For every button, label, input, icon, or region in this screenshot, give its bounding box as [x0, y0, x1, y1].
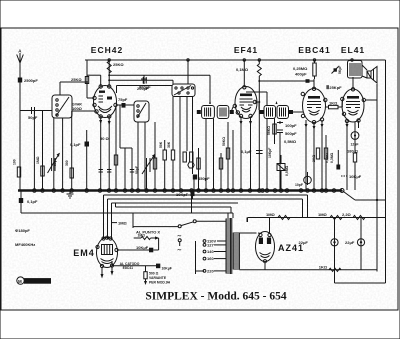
svg-text:50pF: 50pF — [53, 158, 57, 166]
svg-text:25KΩ: 25KΩ — [113, 62, 124, 67]
svg-text:0,5MΩ: 0,5MΩ — [284, 139, 297, 144]
svg-text:EL41: EL41 — [341, 45, 365, 55]
svg-text:MF460KHz: MF460KHz — [15, 242, 35, 247]
svg-text:30K: 30K — [167, 141, 171, 148]
svg-text:10KμF: 10KμF — [162, 266, 172, 270]
svg-text:1KΩ: 1KΩ — [329, 101, 338, 106]
svg-text:Φ180pF: Φ180pF — [15, 228, 30, 233]
svg-text:PER MOD.9H: PER MOD.9H — [149, 281, 171, 285]
svg-text:0,25MΩ: 0,25MΩ — [293, 66, 308, 71]
svg-text:400pF: 400pF — [295, 72, 307, 77]
svg-text:10KμF: 10KμF — [136, 245, 149, 250]
svg-text:EM 64-05: EM 64-05 — [26, 279, 46, 284]
svg-text:1MΩ: 1MΩ — [318, 212, 328, 217]
svg-text:0,1pF: 0,1pF — [70, 142, 81, 147]
svg-text:100pF: 100pF — [285, 123, 297, 128]
svg-text:50 Ω: 50 Ω — [100, 136, 110, 141]
svg-text:∼: ∼ — [177, 248, 182, 254]
svg-text:∼: ∼ — [177, 234, 182, 240]
svg-text:50pF: 50pF — [135, 166, 139, 174]
svg-text:EM4: EM4 — [73, 248, 95, 258]
svg-text:2KΩ: 2KΩ — [312, 155, 316, 162]
svg-text:1MΩ: 1MΩ — [266, 212, 276, 217]
svg-text:1MΩ: 1MΩ — [118, 221, 128, 226]
svg-text:0,5MΩ: 0,5MΩ — [285, 165, 289, 176]
svg-text:M: M — [18, 279, 22, 284]
svg-text:0,1pF: 0,1pF — [27, 199, 38, 204]
svg-text:10KpF: 10KpF — [268, 148, 272, 158]
svg-text:10KμF: 10KμF — [349, 174, 362, 179]
svg-text:450pF: 450pF — [198, 176, 210, 181]
svg-text:E8C41: E8C41 — [123, 266, 133, 270]
svg-text:50K: 50K — [159, 141, 163, 148]
svg-text:56KΩ: 56KΩ — [267, 126, 271, 135]
svg-text:VARIANTE: VARIANTE — [149, 276, 167, 280]
svg-text:ECH42: ECH42 — [91, 45, 123, 55]
svg-text:50KΩ: 50KΩ — [222, 137, 226, 146]
svg-text:≣25KpF: ≣25KpF — [326, 81, 342, 90]
svg-text:1MΩ: 1MΩ — [36, 156, 40, 164]
svg-text:EBC41: EBC41 — [298, 45, 330, 55]
svg-text:100Ω: 100Ω — [72, 106, 83, 111]
svg-text:500pF: 500pF — [285, 131, 297, 136]
svg-text:EF41: EF41 — [234, 45, 258, 55]
svg-text:127: 127 — [207, 242, 214, 247]
svg-text:12pF: 12pF — [351, 142, 359, 146]
svg-text:160: 160 — [207, 256, 214, 261]
svg-text:22μF: 22μF — [345, 240, 355, 245]
svg-text:200pF: 200pF — [137, 86, 149, 91]
svg-text:22μF: 22μF — [299, 240, 309, 245]
svg-text:50pF: 50pF — [28, 115, 38, 120]
svg-text:140: 140 — [207, 249, 214, 254]
svg-text:25KΩ: 25KΩ — [71, 77, 82, 82]
svg-text:500 Ω: 500 Ω — [149, 272, 159, 276]
svg-text:220: 220 — [207, 268, 214, 273]
svg-text:0,1μF: 0,1μF — [241, 149, 252, 154]
svg-text:100: 100 — [13, 159, 17, 165]
svg-text:300: 300 — [65, 160, 69, 166]
svg-text:A: A — [18, 49, 22, 54]
svg-text:2,2Ω: 2,2Ω — [342, 212, 352, 217]
svg-text:AL CATODO: AL CATODO — [120, 262, 140, 266]
svg-text:75pF: 75pF — [118, 97, 128, 102]
svg-text:0,3MΩ: 0,3MΩ — [330, 152, 334, 163]
svg-text:1MΩ: 1MΩ — [138, 234, 146, 238]
svg-text:10pF: 10pF — [295, 183, 303, 187]
svg-text:1KΩ: 1KΩ — [319, 264, 328, 269]
svg-text:2500pF: 2500pF — [24, 78, 38, 83]
svg-text:SIMPLEX - Modd. 645 - 654: SIMPLEX - Modd. 645 - 654 — [145, 291, 286, 303]
svg-text:0,1MΩ: 0,1MΩ — [236, 67, 249, 72]
